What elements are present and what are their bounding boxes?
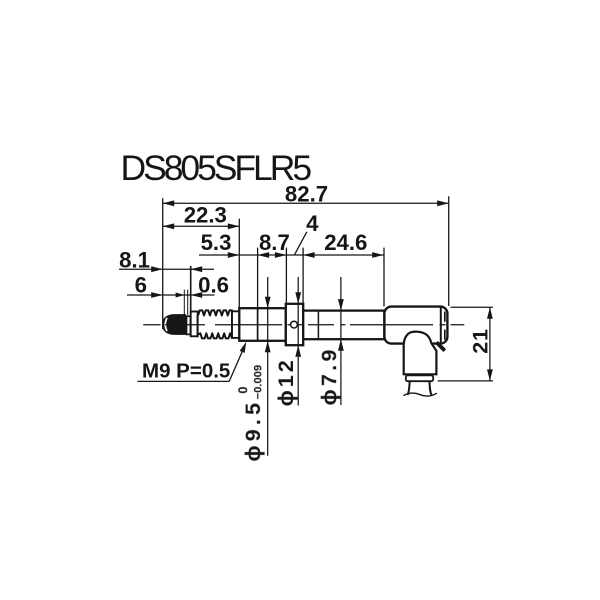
cable left edge [408, 381, 410, 395]
connector boot with dome [404, 332, 437, 375]
extension tick x=184.3 [183, 290, 185, 315]
dimension 82.7 [163, 181, 449, 206]
flange dia 12 [286, 304, 303, 345]
svg-text:24.6: 24.6 [324, 230, 367, 255]
dimension 22.3 [163, 203, 240, 230]
extension line E x=384 [383, 248, 385, 307]
flange hole [291, 321, 298, 328]
extension line x=190.7 [190, 266, 192, 313]
svg-text:ϕ7.9: ϕ7.9 [317, 346, 341, 405]
cable right edge [429, 381, 431, 395]
svg-text:8.7: 8.7 [259, 230, 290, 255]
dimension 21 [438, 307, 493, 381]
extension line right end x=448.7 [448, 196, 450, 306]
threaded section M9 [198, 310, 232, 338]
svg-text:8.1: 8.1 [119, 247, 150, 272]
arrow right into C [275, 252, 287, 258]
dimension 6 / 0.6 [127, 272, 229, 298]
boot corner wedge [436, 342, 444, 350]
shaft internal line [317, 311, 319, 340]
nut band [406, 375, 433, 381]
extension line B x=257.6 [257, 248, 259, 309]
end body [384, 307, 447, 344]
svg-text:0.6: 0.6 [198, 273, 229, 298]
svg-text:ϕ9.5: ϕ9.5 [241, 399, 265, 462]
shaft dia 7.9 [303, 311, 384, 340]
dimension 8.1 [119, 247, 214, 272]
step piece before threads [191, 312, 198, 337]
svg-text:22.3: 22.3 [184, 203, 227, 228]
svg-text:4: 4 [306, 211, 319, 236]
arrow left at B [258, 252, 270, 258]
thin disc after tip [187, 316, 191, 334]
thread runout section [232, 311, 239, 338]
svg-text:M9 P=0.5: M9 P=0.5 [142, 359, 230, 382]
arrow right into E [372, 252, 384, 258]
extension line A x=239.3 [238, 219, 240, 309]
arrow right into A [228, 252, 240, 258]
centerline [143, 324, 464, 326]
svg-text:82.7: 82.7 [285, 181, 328, 206]
end cap tick bottom [444, 330, 446, 340]
tip highlight arc [165, 318, 167, 331]
end cap inner line [440, 308, 442, 343]
svg-text:DS805SFLR5: DS805SFLR5 [121, 148, 312, 188]
extension line D x=303.1 [302, 248, 304, 304]
extension tick x=187.7 [187, 290, 189, 316]
svg-text:21: 21 [468, 328, 492, 354]
extension line C x=286.4 [285, 248, 287, 304]
svg-text:−0.009: −0.009 [252, 365, 264, 400]
svg-text:6: 6 [135, 272, 147, 297]
chain dimension line 5.3 / 8.7 / 4 / 24.6 [199, 230, 384, 258]
svg-text:ϕ12: ϕ12 [274, 357, 298, 406]
svg-text:0: 0 [235, 386, 250, 393]
internal joint line at B [257, 308, 259, 341]
arrow left at D [303, 252, 315, 258]
extension line left datum x=162.7 [162, 198, 164, 329]
leader M9 P=0.5 [138, 342, 247, 383]
svg-text:5.3: 5.3 [201, 230, 232, 255]
phi 9.5 leader line [235, 277, 270, 462]
body section dia 9.5 [239, 308, 285, 341]
phi 7.9 leader line [317, 277, 344, 406]
phi 12 leader line [274, 277, 301, 406]
probe tip (black contact) [163, 315, 185, 334]
label 4 with leader [295, 211, 320, 255]
cable break wavy line [403, 393, 436, 396]
end cap tick top [444, 312, 446, 322]
